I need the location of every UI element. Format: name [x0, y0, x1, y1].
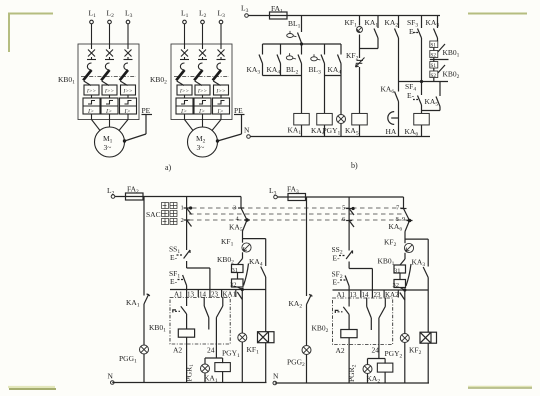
svg-text:HA: HA — [386, 127, 397, 136]
svg-text:23: 23 — [211, 291, 219, 299]
svg-text:13: 13 — [350, 291, 358, 299]
svg-text:14: 14 — [362, 291, 370, 299]
svg-text:KA2: KA2 — [385, 291, 399, 299]
svg-text:b): b) — [351, 161, 358, 170]
svg-text:PE: PE — [234, 106, 243, 115]
svg-text:31: 31 — [394, 268, 401, 275]
svg-text:3~: 3~ — [197, 143, 205, 152]
svg-text:3: 3 — [233, 205, 236, 212]
svg-text:2: 2 — [181, 217, 184, 224]
svg-text:1: 1 — [181, 205, 184, 212]
svg-text:E-: E- — [333, 278, 341, 287]
svg-text:KA1: KA1 — [223, 291, 237, 299]
svg-text:A1: A1 — [337, 291, 346, 299]
svg-text:PE: PE — [142, 106, 151, 115]
svg-text:14: 14 — [199, 291, 207, 299]
svg-text:9: 9 — [402, 216, 405, 223]
svg-text:E-: E- — [170, 277, 178, 286]
svg-text:24: 24 — [207, 346, 215, 355]
svg-text:E-: E- — [409, 27, 417, 36]
svg-text:S1: S1 — [431, 42, 437, 48]
svg-text:32: 32 — [230, 282, 237, 289]
svg-text:a): a) — [165, 163, 172, 172]
svg-text:SAC: SAC — [146, 210, 161, 219]
svg-text:A2: A2 — [173, 346, 182, 355]
svg-text:23: 23 — [374, 291, 382, 299]
svg-text:24: 24 — [372, 346, 380, 355]
svg-text:13: 13 — [187, 291, 195, 299]
svg-text:32: 32 — [393, 282, 400, 289]
svg-text:E-: E- — [333, 254, 341, 263]
svg-text:N: N — [244, 126, 250, 135]
svg-text:N: N — [273, 372, 279, 381]
svg-text:S2: S2 — [431, 52, 437, 58]
svg-text:A2: A2 — [336, 346, 345, 355]
svg-text:S2: S2 — [431, 73, 437, 79]
svg-text:S1: S1 — [431, 63, 437, 69]
svg-text:3~: 3~ — [104, 143, 112, 152]
svg-text:31: 31 — [232, 267, 239, 274]
svg-text:5: 5 — [342, 205, 345, 212]
svg-text:A1: A1 — [174, 291, 183, 299]
svg-text:E-: E- — [407, 91, 415, 100]
svg-text:N: N — [108, 372, 114, 381]
svg-text:E-: E- — [170, 253, 178, 262]
